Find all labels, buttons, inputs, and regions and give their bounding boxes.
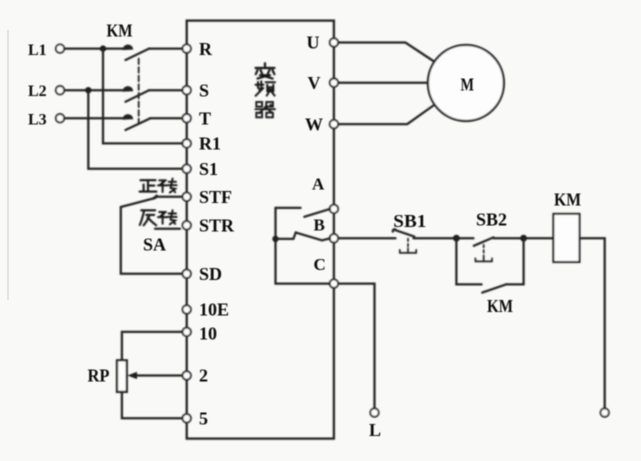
label L [369, 420, 381, 440]
wire RP to 5 [122, 392, 183, 418]
motor M [428, 45, 504, 121]
label S [199, 80, 209, 100]
junction relay common B [272, 236, 278, 242]
contactor KM main contact pole1 [123, 45, 182, 60]
label 5 [199, 409, 208, 429]
svg-text:R1: R1 [199, 134, 221, 154]
svg-text:L2: L2 [28, 83, 47, 100]
svg-text:L3: L3 [28, 111, 47, 128]
svg-text:U: U [307, 32, 320, 52]
label 变 [256, 63, 275, 78]
contactor coil KM [553, 214, 579, 262]
input terminal L3 [56, 114, 64, 122]
svg-text:L1: L1 [28, 42, 47, 59]
terminal 2 [183, 371, 191, 379]
svg-text:SB2: SB2 [476, 210, 507, 230]
potentiometer RP body [117, 360, 127, 392]
contactor linkage dashed [138, 59, 140, 123]
junction L1-R1 [100, 45, 106, 51]
switch SA reverse throw STR [155, 228, 180, 230]
label U [307, 32, 320, 52]
svg-text:R: R [199, 39, 213, 59]
svg-text:STR: STR [199, 216, 235, 236]
pushbutton SB1 normally closed [393, 229, 416, 253]
label KM top [107, 21, 133, 41]
svg-text:C: C [314, 255, 326, 274]
label W [305, 114, 323, 134]
terminal end right [601, 408, 609, 416]
label SD [199, 264, 222, 284]
svg-text:10: 10 [199, 323, 217, 343]
svg-text:L: L [369, 420, 381, 440]
terminal 10 [183, 328, 191, 336]
label A [312, 175, 325, 194]
svg-text:SB1: SB1 [393, 211, 426, 231]
terminal V [330, 79, 338, 87]
label 10E [199, 300, 229, 320]
label SB1 [393, 211, 426, 231]
svg-text:S: S [199, 80, 209, 100]
terminal R [183, 44, 191, 52]
relay contact bottom branch to C [276, 282, 330, 284]
label SA [143, 235, 166, 255]
label 频 [256, 81, 276, 96]
pushbutton SB2 normally open [456, 237, 523, 261]
svg-text:M: M [461, 74, 475, 94]
svg-text:SA: SA [143, 235, 166, 255]
terminal A [330, 205, 338, 213]
wire L3 to contact [64, 117, 124, 119]
input terminal L1 [56, 44, 64, 52]
svg-text:T: T [199, 108, 211, 128]
wire junction to coil [524, 237, 554, 239]
relay contact top branch to A [276, 208, 331, 217]
label KM aux [487, 296, 513, 316]
wire U to motor [338, 43, 435, 63]
svg-text:W: W [305, 114, 323, 134]
inverter box U1 变频器 [187, 21, 334, 439]
svg-text:SD: SD [199, 264, 222, 284]
label RP [88, 366, 110, 386]
label T [199, 108, 211, 128]
terminal S1 [183, 165, 191, 173]
label 2 [199, 366, 208, 386]
contactor KM main contact pole2 [123, 87, 182, 102]
label R [199, 39, 213, 59]
junction after SB2 [520, 235, 527, 242]
svg-text:RP: RP [88, 366, 110, 386]
terminal STF [183, 193, 191, 201]
junction after SB1 [453, 235, 460, 242]
label R1 [199, 134, 221, 154]
svg-text:A: A [312, 175, 325, 194]
RP wiper arrow from 2 [127, 372, 182, 379]
svg-text:KM: KM [107, 21, 133, 41]
svg-text:STF: STF [199, 187, 232, 207]
label STR [199, 216, 235, 236]
relay contact middle branch to B [276, 232, 331, 240]
terminal S [183, 86, 191, 94]
terminal R1 [183, 139, 191, 147]
contactor KM main contact pole3 [123, 115, 182, 130]
label L2 [28, 83, 47, 100]
wire V to motor [338, 82, 428, 84]
label L3 [28, 111, 47, 128]
terminal C [330, 279, 338, 287]
label 转 forward [158, 179, 177, 193]
svg-text:KM: KM [487, 296, 513, 316]
wire B to SB1 [338, 237, 395, 239]
label B [314, 216, 325, 235]
label STF [199, 187, 232, 207]
terminal 10E [183, 305, 191, 313]
svg-text:KM: KM [554, 190, 581, 210]
wire L1 to contact [64, 47, 124, 49]
input terminal L2 [56, 86, 64, 94]
label 反 [140, 210, 156, 225]
label S1 [199, 159, 218, 179]
label V [308, 73, 321, 93]
terminal STR [183, 221, 191, 229]
wire W to motor [338, 105, 435, 125]
svg-text:5: 5 [199, 409, 208, 429]
terminal L [370, 408, 378, 416]
svg-text:10E: 10E [199, 300, 229, 320]
KM auxiliary contact branch [456, 238, 523, 292]
label 正 [140, 180, 157, 191]
junction L2-S1 [85, 87, 91, 93]
svg-text:B: B [314, 216, 325, 235]
terminal 5 [183, 414, 191, 422]
wire R1 branch [103, 49, 183, 144]
label 器 [255, 102, 275, 117]
wire coil to terminal [580, 238, 605, 408]
terminal W [330, 120, 338, 128]
terminal U [330, 38, 338, 46]
relay contact common vertical [274, 208, 276, 284]
terminal SD [183, 270, 191, 278]
svg-text:V: V [308, 73, 321, 93]
label KM coil [554, 190, 581, 210]
label C [314, 255, 326, 274]
switch SA blade to STF [121, 196, 183, 207]
terminal T [183, 114, 191, 122]
svg-text:S1: S1 [199, 159, 218, 179]
label 10 [199, 323, 217, 343]
wire 10 to RP [122, 332, 183, 360]
label M [461, 74, 475, 94]
label SB2 [476, 210, 507, 230]
wire S1 branch [88, 90, 182, 169]
terminal B [330, 234, 338, 242]
label L1 [28, 42, 47, 59]
svg-text:2: 2 [199, 366, 208, 386]
wire C to L [338, 284, 374, 409]
wire SB1 to junction [414, 237, 457, 239]
switch SA wire SD to pivot [121, 207, 183, 274]
faint scan artifact line [7, 30, 9, 300]
label 转 reverse [158, 210, 177, 224]
wire L2 to contact [64, 89, 124, 91]
